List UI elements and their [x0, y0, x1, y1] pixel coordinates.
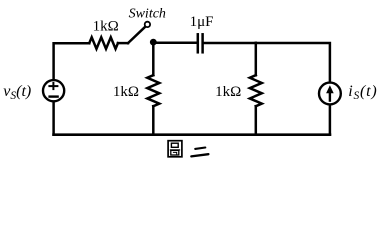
svg-text:1kΩ: 1kΩ	[215, 84, 241, 100]
svg-text:iS(t): iS(t)	[348, 83, 377, 102]
svg-text:1μF: 1μF	[190, 14, 214, 30]
svg-text:vS(t): vS(t)	[3, 83, 31, 102]
svg-text:1kΩ: 1kΩ	[113, 84, 139, 100]
svg-text:1kΩ: 1kΩ	[93, 18, 119, 34]
svg-text:Switch: Switch	[129, 6, 166, 21]
